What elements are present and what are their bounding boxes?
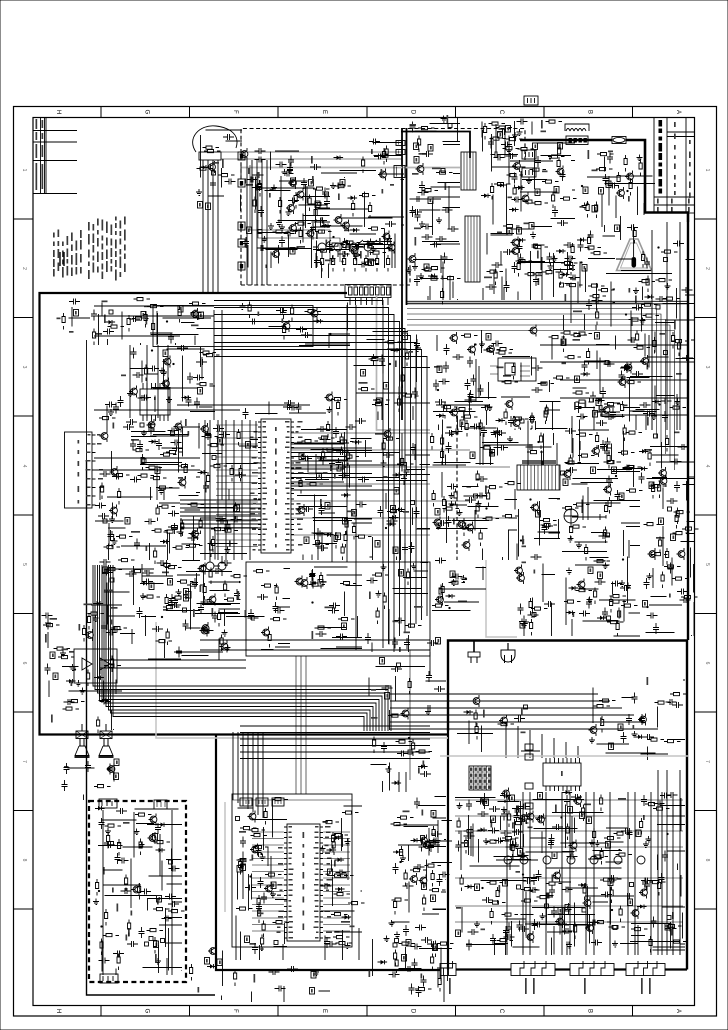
capacitor C341 — [615, 490, 621, 501]
transistor Q141 — [209, 596, 216, 603]
resistor R467 — [154, 937, 157, 954]
capacitor C330 — [452, 429, 463, 435]
junction node — [385, 527, 387, 529]
diode D165 — [411, 838, 421, 842]
transistor Q179 — [527, 813, 534, 820]
diode D103 — [334, 156, 344, 160]
resistor R395 — [585, 544, 588, 561]
label text — [111, 607, 118, 609]
capacitor C450 — [488, 828, 499, 834]
capacitor C204 — [148, 366, 159, 372]
reference box — [391, 506, 396, 513]
capacitor C449 — [456, 841, 462, 852]
reference box — [237, 866, 242, 873]
AC plug P02 — [507, 643, 509, 650]
capacitor C193 — [91, 310, 97, 321]
resistor R455 — [138, 883, 141, 900]
ground — [330, 183, 336, 189]
label text — [522, 536, 524, 545]
capacitor C428 — [258, 877, 264, 888]
ground — [225, 645, 231, 651]
transistor Q199 — [388, 244, 395, 251]
transistor Q129 — [530, 327, 537, 334]
resistor R451 — [105, 824, 122, 827]
junction node — [341, 260, 343, 262]
resistor R549 — [665, 925, 682, 928]
label text — [271, 884, 273, 888]
reference box — [311, 972, 316, 979]
capacitor C107 — [316, 218, 327, 224]
resistor R286 — [340, 434, 343, 451]
resistor R110 — [295, 222, 312, 225]
diode D104 — [428, 274, 438, 278]
transistor Q193 — [473, 698, 480, 705]
label text — [191, 325, 199, 327]
diode D140 — [638, 467, 648, 471]
N201 pins — [143, 383, 168, 421]
label text — [341, 921, 350, 923]
capacitor C263 — [317, 545, 328, 551]
resistor R581 — [368, 227, 385, 230]
resistor R393 — [540, 519, 557, 522]
ground — [512, 132, 518, 138]
CRT board channel wires — [507, 792, 673, 955]
resistor R244 — [571, 334, 588, 337]
capacitor C321 — [329, 603, 340, 609]
label text — [316, 232, 318, 240]
resistor R386 — [439, 585, 442, 602]
resistor R562 — [431, 954, 434, 971]
label text — [330, 465, 332, 472]
resistor R531 — [574, 923, 577, 940]
capacitor C167 — [498, 129, 509, 135]
label text — [144, 306, 151, 308]
transistor Q119 — [131, 388, 138, 395]
capacitor C540 — [301, 178, 307, 189]
resistor R426 — [675, 512, 678, 529]
reference box — [536, 511, 541, 518]
transistor Q118 — [192, 311, 199, 318]
transistor Q170 — [150, 816, 157, 823]
degauss connector — [199, 152, 221, 160]
capacitor C411 — [121, 888, 132, 894]
diode D113 — [645, 295, 655, 299]
resistor R239 — [504, 409, 507, 426]
capacitor C334 — [465, 397, 476, 403]
resistor R232 — [461, 334, 478, 337]
capacitor C262 — [235, 472, 246, 478]
transistor Q176 — [420, 877, 427, 884]
label text — [516, 871, 521, 873]
label text — [229, 541, 231, 547]
reference box — [511, 839, 516, 846]
loudspeaker B2 — [105, 724, 107, 731]
capacitor C388 — [101, 622, 107, 633]
connector pad — [393, 943, 397, 947]
resistor R237 — [496, 351, 513, 354]
capacitor C276 — [336, 449, 347, 455]
wire bundle — [354, 332, 431, 421]
capacitor C103 — [225, 179, 236, 185]
capacitor C469 — [478, 811, 489, 817]
bottom-left module bottom connector — [100, 974, 118, 983]
transistor Q192 — [501, 717, 508, 724]
reference box — [428, 145, 433, 152]
resistor R344 — [479, 420, 482, 437]
ground — [345, 839, 351, 846]
ground — [260, 854, 266, 861]
label text — [360, 251, 362, 259]
resistor R554 — [601, 716, 604, 733]
capacitor C325 — [367, 578, 378, 584]
connector pad — [668, 507, 672, 511]
CRT socket connector XS02 — [511, 964, 555, 976]
horizontal interconnect wires — [94, 306, 430, 668]
transistor Q138 — [111, 507, 118, 514]
capacitor C456 — [667, 792, 678, 798]
capacitor C551 — [397, 751, 408, 757]
resistor R266 — [237, 429, 240, 446]
resistor R243 — [544, 408, 547, 425]
label text — [484, 277, 492, 279]
resistor R201 — [147, 305, 164, 308]
reference box — [596, 399, 601, 406]
resistor R221 — [398, 396, 401, 413]
resistor R180 — [591, 252, 608, 255]
transistor Q177 — [570, 842, 577, 849]
ground — [643, 841, 649, 848]
label text — [647, 365, 649, 370]
resistor R164 — [517, 260, 520, 277]
resistor R143 — [525, 273, 542, 276]
ground — [262, 236, 268, 242]
resistor R569 — [431, 870, 434, 887]
resistor R129 — [428, 267, 445, 270]
label text — [381, 169, 383, 177]
label text — [485, 406, 490, 408]
capacitor C524 — [431, 831, 442, 837]
resistor R230 — [441, 406, 458, 409]
capacitor C288 — [145, 519, 156, 525]
thick mains line 2 — [626, 140, 688, 222]
CRT extra channel wires — [658, 770, 680, 955]
resistor R523 — [600, 795, 603, 812]
svg-text:F: F — [232, 110, 238, 114]
diode D125 — [352, 440, 362, 444]
capacitor C170 — [608, 183, 619, 189]
label text — [608, 151, 613, 153]
transistor Q201 — [343, 222, 350, 229]
capacitor C238 — [582, 361, 588, 372]
svg-text:G: G — [144, 1009, 150, 1014]
transistor Q130 — [101, 433, 108, 440]
connector pad — [258, 230, 262, 234]
transistor Q194 — [421, 837, 428, 844]
capacitor C503 — [518, 926, 529, 932]
capacitor C138 — [442, 253, 448, 264]
resistor R298 — [164, 530, 181, 533]
reference box — [247, 227, 252, 234]
ground — [270, 891, 276, 897]
capacitor C258 — [205, 429, 211, 440]
capacitor C279 — [410, 443, 416, 454]
reference box — [431, 811, 436, 818]
ground — [589, 840, 595, 847]
resistor R305 — [168, 526, 185, 529]
resistor R408 — [594, 588, 597, 605]
label text — [573, 613, 575, 618]
transistor Q189 — [527, 934, 534, 941]
transistor Q147 — [603, 407, 610, 414]
capacitor C154 — [517, 242, 523, 253]
label text — [399, 387, 401, 396]
resistor R159 — [496, 126, 513, 129]
resistor R168 — [596, 168, 613, 171]
capacitor C303 — [137, 607, 143, 618]
capacitor C101 — [223, 134, 234, 140]
resistor R233 — [497, 348, 514, 351]
resistor R226 — [385, 341, 402, 344]
resistor R366 — [618, 451, 635, 454]
capacitor C530 — [403, 883, 414, 889]
resistor R376 — [443, 496, 446, 513]
diode D138 — [566, 611, 576, 615]
transistor Q136 — [298, 507, 305, 514]
resistor R245 — [573, 391, 590, 394]
resistor R499 — [415, 988, 432, 991]
capacitor C548 — [627, 225, 638, 231]
reference box — [552, 852, 557, 859]
zone ticks left/right — [14, 219, 717, 909]
label text — [117, 904, 119, 912]
connector pad — [212, 171, 216, 175]
transistor Q172 — [266, 885, 273, 892]
resistor R151 — [543, 271, 560, 274]
label text — [371, 717, 378, 719]
junction node — [358, 254, 360, 256]
resistor R290 — [353, 523, 356, 540]
shield gray line — [241, 167, 460, 169]
resistor R127 — [441, 288, 444, 305]
ground — [376, 591, 382, 598]
label text — [62, 649, 69, 651]
capacitor C272 — [333, 427, 339, 438]
resistor R412 — [650, 485, 667, 488]
resistor R460 — [96, 879, 99, 896]
wire bundle — [686, 260, 695, 276]
label text — [369, 592, 371, 600]
capacitor C398 — [170, 602, 181, 608]
resistor R391 — [530, 619, 533, 636]
connector pad — [561, 471, 565, 475]
resistor R580 — [315, 230, 332, 233]
resistor R428 — [43, 624, 60, 627]
label text — [629, 288, 631, 293]
thick bus inner upper — [86, 340, 88, 460]
resistor R342 — [405, 624, 422, 627]
reference box — [163, 350, 168, 357]
resistor R337 — [309, 583, 326, 586]
connector pad — [560, 283, 564, 287]
svg-text:B: B — [587, 110, 593, 114]
junction node — [238, 581, 240, 583]
ground — [222, 630, 228, 637]
resistor R176 — [585, 246, 602, 249]
connector pad — [654, 434, 658, 438]
resistor R202 — [132, 317, 149, 320]
capacitor C114 — [257, 180, 263, 191]
resistor R390 — [531, 607, 548, 610]
capacitor C284 — [383, 452, 394, 458]
wire bundle — [425, 820, 453, 863]
capacitor C417 — [104, 842, 115, 848]
resistor R317 — [106, 568, 123, 571]
diode D116 — [182, 396, 192, 400]
resistor R537 — [649, 881, 666, 884]
resistor R191 — [639, 280, 656, 283]
resistor R214 — [145, 365, 148, 382]
capacitor C293 — [172, 523, 178, 534]
capacitor C323 — [309, 570, 315, 581]
resistor R152 — [558, 145, 561, 162]
diode D132 — [160, 540, 170, 544]
label text — [319, 581, 327, 583]
link connectors column — [525, 744, 533, 750]
capacitor C189 — [619, 371, 625, 382]
capacitor C518 — [514, 811, 520, 822]
resistor R379 — [486, 486, 503, 489]
resistor R387 — [441, 583, 444, 600]
capacitor C441 — [421, 976, 427, 987]
transistor Q169 — [149, 835, 156, 842]
ground — [449, 430, 455, 436]
capacitor C290 — [188, 535, 199, 541]
wire bundle — [194, 508, 248, 561]
ground — [540, 913, 546, 919]
connector pad — [532, 613, 536, 617]
label text — [239, 831, 246, 833]
ground — [489, 450, 495, 457]
capacitor C333 — [446, 442, 452, 453]
resistor R536 — [594, 921, 611, 924]
resistor R443 — [218, 610, 221, 627]
capacitor C140 — [422, 224, 433, 230]
capacitor C481 — [517, 921, 523, 932]
ground — [449, 501, 455, 507]
capacitor C247 — [171, 440, 182, 446]
label text — [573, 339, 581, 341]
capacitor C413 — [155, 823, 161, 834]
resistor R437 — [87, 670, 90, 687]
label text — [193, 609, 195, 617]
reference box — [178, 306, 183, 313]
capacitor C231 — [435, 399, 446, 405]
resistor R475 — [273, 921, 290, 924]
resistor R488 — [342, 811, 359, 814]
resistor R442 — [144, 595, 161, 598]
resistor R208 — [152, 320, 155, 337]
capacitor C512 — [672, 702, 683, 708]
resistor R382 — [476, 502, 479, 519]
diode D160 — [637, 905, 647, 909]
svg-text:8: 8 — [21, 859, 27, 862]
resistor R272 — [207, 472, 210, 489]
label text — [311, 156, 313, 164]
reference box — [290, 248, 295, 255]
capacitor C379 — [680, 597, 691, 603]
capacitor C135 — [410, 122, 416, 133]
capacitor C235 — [492, 341, 503, 347]
transistor Q190 — [590, 727, 597, 734]
resistor R389 — [449, 581, 466, 584]
capacitor C137 — [422, 151, 433, 157]
diode D152 — [342, 915, 352, 919]
title table top-left — [33, 118, 46, 194]
connector pad — [395, 939, 399, 943]
capacitor C440 — [404, 966, 415, 972]
diode D106 — [481, 194, 491, 198]
resistor R310 — [234, 503, 237, 520]
transistor V207 — [290, 225, 297, 232]
resistor R385 — [476, 471, 479, 488]
label text — [69, 331, 74, 333]
capacitor C385 — [42, 613, 53, 619]
resistor R293 — [383, 437, 400, 440]
label text — [51, 715, 53, 723]
ground — [457, 510, 463, 516]
capacitor C131 — [414, 275, 420, 286]
resistor R320 — [161, 564, 178, 567]
resistor R190 — [625, 381, 642, 384]
reference box — [402, 955, 407, 962]
ground — [637, 155, 643, 161]
capacitor C251 — [100, 471, 111, 477]
resistor R145 — [484, 123, 487, 140]
resistor R399 — [607, 621, 624, 624]
label text — [418, 768, 420, 774]
resistor R486 — [337, 874, 354, 877]
capacitor C412 — [169, 866, 180, 872]
resistor R227 — [401, 372, 404, 389]
capacitor C120 — [252, 185, 263, 191]
reference box — [517, 228, 522, 235]
resistor R398 — [610, 595, 627, 598]
capacitor C253 — [130, 477, 141, 483]
label text — [45, 634, 47, 643]
capacitor C129 — [369, 139, 380, 145]
resistor R367 — [605, 461, 622, 464]
resistor R195 — [646, 276, 649, 293]
capacitor C143 — [415, 211, 421, 222]
resistor R138 — [532, 202, 549, 205]
ground — [441, 116, 447, 123]
connector pad — [316, 541, 320, 545]
thick bus center vertical A — [401, 128, 403, 420]
junction node — [581, 185, 583, 187]
capacitor C482 — [644, 880, 650, 891]
resistor R194 — [636, 331, 639, 348]
resistor R520 — [604, 837, 621, 840]
label text — [382, 189, 384, 194]
gray vertical line — [377, 295, 431, 430]
resistor R495 — [190, 964, 193, 981]
transistor Q116 — [619, 379, 626, 386]
label text — [198, 987, 200, 993]
resistor R355 — [604, 461, 621, 464]
transistor Q102 — [241, 151, 248, 158]
capacitor C267 — [356, 502, 367, 508]
resistor R171 — [629, 179, 632, 196]
